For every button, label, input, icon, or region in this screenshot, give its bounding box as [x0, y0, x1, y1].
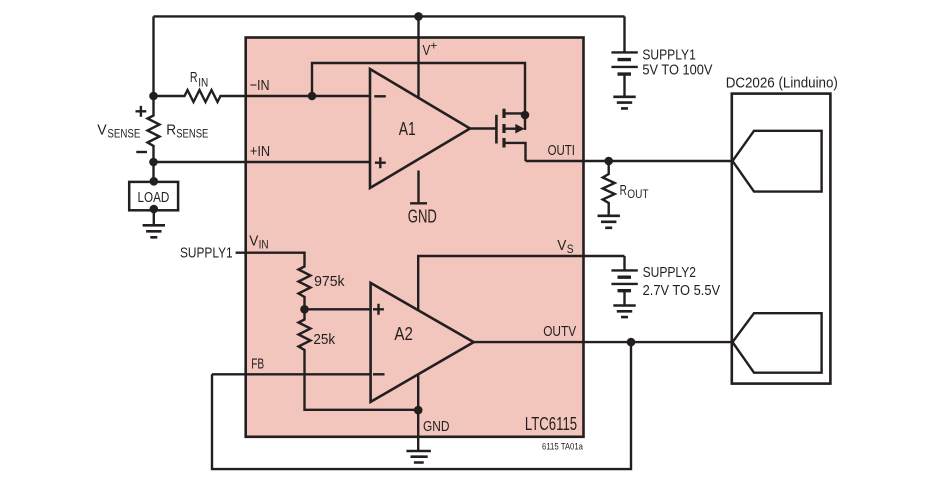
- label: LTC6115 part number: [525, 414, 577, 434]
- label: SUPPLY1 5V TO 100V: [642, 47, 712, 79]
- label: - polarity of VSENSE: [136, 151, 147, 153]
- wire: left vertical from top rail to sense node: [152, 16, 154, 113]
- wire: top supply rail: [154, 15, 625, 17]
- label: pin -IN: [250, 77, 270, 94]
- svg-text:V: V: [423, 42, 431, 59]
- label: pin VIN: [249, 233, 268, 252]
- op-amp A2: [371, 283, 474, 402]
- svg-text:SENSE: SENSE: [176, 127, 208, 141]
- label: 6115 TA01a figure tag: [542, 441, 584, 452]
- label: GND under A1: [408, 207, 437, 227]
- svg-text:25k: 25k: [313, 331, 335, 348]
- connector: DC2026 input 1: [733, 131, 822, 192]
- svg-text:GND: GND: [423, 418, 450, 435]
- svg-text:OUT: OUT: [627, 187, 649, 201]
- node: top rail / V+ junction: [414, 12, 423, 21]
- transistor Q1 (NMOS): [470, 109, 526, 161]
- svg-text:DC2026 (Linduino): DC2026 (Linduino): [726, 75, 838, 92]
- node: LOAD bottom: [150, 205, 159, 214]
- wire: A2 supply stub to VS: [418, 256, 624, 311]
- wire: OUTV feedback loop to FB: [212, 342, 631, 469]
- wire: OUTV output: [474, 341, 732, 343]
- label: A2 inverting input -: [373, 373, 385, 375]
- svg-text:6115 TA01a: 6115 TA01a: [542, 441, 584, 452]
- svg-text:V: V: [97, 122, 106, 139]
- label: A2 non-inverting input +: [373, 304, 384, 315]
- wire: A2 gnd stub: [417, 375, 419, 451]
- resistor ROUT: [603, 161, 615, 215]
- node: +IN junction: [149, 158, 158, 167]
- resistor RIN: [154, 90, 224, 102]
- wire: 25k bottom to A2 gnd node: [305, 354, 419, 410]
- LTC6115 IC body: [246, 38, 584, 437]
- DC2026 Linduino board box: [732, 94, 831, 384]
- node: OUTI / ROUT junction: [604, 157, 613, 166]
- svg-text:V: V: [557, 237, 566, 254]
- node: -IN feedback junction: [308, 92, 317, 101]
- svg-text:OUTV: OUTV: [543, 323, 576, 340]
- svg-text:5V TO 100V: 5V TO 100V: [642, 62, 712, 79]
- label: pin +IN: [250, 143, 270, 160]
- node: LOAD top: [150, 177, 159, 186]
- resistor RSENSE: [148, 113, 160, 150]
- svg-text:−IN: −IN: [250, 77, 270, 94]
- label: pin OUTV: [543, 323, 576, 340]
- label: pin V+: [423, 38, 438, 59]
- battery SUPPLY1: [611, 16, 637, 96]
- wire: OUTI output: [526, 160, 733, 162]
- svg-text:V: V: [249, 233, 258, 250]
- label: A1 inverting input -: [374, 95, 386, 97]
- label: SUPPLY1 (left): [180, 244, 233, 261]
- label: DC2026 (Linduino): [726, 75, 838, 92]
- wire: FB to A2 - input: [212, 373, 371, 375]
- svg-text:LTC6115: LTC6115: [525, 414, 577, 434]
- label: A1 non-inverting input +: [375, 157, 386, 168]
- label: ROUT: [620, 182, 650, 201]
- svg-text:FB: FB: [251, 356, 264, 373]
- wire: SUPPLY1 into VIN divider: [236, 253, 305, 264]
- ground: below LOAD: [143, 225, 165, 237]
- label: RIN: [190, 69, 208, 89]
- label: RSENSE: [166, 122, 208, 141]
- battery SUPPLY2: [611, 256, 637, 305]
- resistor 25k: [299, 317, 311, 354]
- svg-text:SENSE: SENSE: [107, 127, 140, 141]
- node: OUTV feedback junction: [627, 338, 636, 347]
- wire: feedback from -IN up over A1 to Q1 drain: [312, 63, 525, 130]
- svg-text:OUTI: OUTI: [548, 142, 575, 159]
- node: divider tap junction: [300, 305, 309, 314]
- ground: below ROUT: [598, 216, 620, 228]
- ground: A1 GND stub: [410, 171, 427, 204]
- ground: below SUPPLY2: [613, 306, 635, 318]
- svg-text:LOAD: LOAD: [138, 189, 170, 206]
- svg-text:S: S: [567, 242, 574, 256]
- label: SUPPLY2 2.7V TO 5.5V: [643, 264, 721, 299]
- label: VSENSE: [97, 122, 140, 141]
- LOAD box: [129, 182, 178, 210]
- svg-text:2.7V TO 5.5V: 2.7V TO 5.5V: [643, 282, 721, 299]
- svg-text:A2: A2: [394, 324, 413, 344]
- wire: +IN pin of A1: [154, 161, 371, 163]
- svg-text:SUPPLY1: SUPPLY1: [180, 244, 233, 261]
- svg-text:SUPPLY2: SUPPLY2: [643, 264, 696, 281]
- ground: below LTC6115 box: [406, 451, 431, 463]
- wire: RSENSE bottom to LOAD: [152, 150, 154, 182]
- svg-text:+: +: [430, 38, 437, 52]
- label: pin OUTI: [548, 142, 575, 159]
- node: A2 gnd junction: [414, 406, 423, 415]
- svg-text:A1: A1: [399, 119, 416, 139]
- label: 25k: [313, 331, 335, 348]
- ground: below SUPPLY1: [613, 97, 635, 109]
- node: Q1 drain junction: [521, 111, 530, 120]
- svg-text:975k: 975k: [314, 273, 345, 290]
- connector: DC2026 input 2: [733, 313, 822, 373]
- label: GND at A2: [423, 418, 450, 435]
- svg-text:GND: GND: [408, 207, 437, 227]
- op-amp A1: [370, 69, 470, 188]
- wire: LOAD to ground: [153, 210, 155, 225]
- resistor 975k: [299, 264, 311, 301]
- wire: RIN to -IN pin of A1: [223, 95, 370, 97]
- svg-text:R: R: [190, 69, 198, 86]
- label: + polarity of VSENSE: [136, 106, 147, 117]
- node: RIN / RSENSE top junction: [149, 92, 158, 101]
- svg-text:+IN: +IN: [250, 143, 270, 160]
- wire: divider to 25k: [303, 301, 305, 317]
- svg-text:R: R: [166, 122, 176, 139]
- svg-text:IN: IN: [259, 237, 269, 251]
- wire: V+ drop into A1: [417, 16, 419, 99]
- label: pin VS: [557, 237, 574, 256]
- wire: divider tap to A2 + input: [305, 308, 371, 310]
- svg-text:IN: IN: [198, 76, 208, 90]
- label: 975k: [314, 273, 345, 290]
- label: pin FB: [251, 356, 264, 373]
- svg-text:R: R: [620, 182, 627, 199]
